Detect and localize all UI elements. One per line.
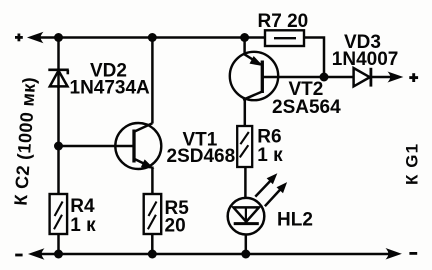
junction: bottom rail / HL2 [241,250,250,259]
wire: R4 bottom lead [57,233,60,254]
plus terminal right [409,73,418,82]
transistor VT1 (NPN 2SD468) [115,123,161,169]
HL2 emission arrow 1 [255,174,276,196]
wire: VD2 top lead [57,38,60,89]
wire: VT2 collector lead to R6 [244,99,247,127]
resistor R4 [50,194,68,234]
svg-text:R4: R4 [70,196,95,217]
wire: R5 bottom lead [151,233,154,254]
transistor VT2 (PNP 2SA564) [230,52,278,100]
HL2 emission arrow 2 [265,183,286,206]
wire: VD3 cathode wire with right arrow [371,76,392,79]
resistor R6 [237,126,252,167]
junction: top rail / VD2 [54,33,63,42]
svg-text:К G1: К G1 [403,143,422,185]
zener diode VD2 [48,70,69,87]
svg-text:1 к: 1 к [257,145,283,166]
svg-text:HL2: HL2 [277,209,313,230]
minus terminal bottom-left [15,254,22,257]
svg-text:2SA564: 2SA564 [272,97,341,118]
wire: R6 bottom lead to HL2 [244,167,247,199]
plus terminal top-left [15,34,23,42]
wire: VT1 emitter lead to R5 [151,167,154,195]
svg-text:2SD468: 2SD468 [167,146,236,167]
junction: top rail / VT1 collector [148,33,157,42]
svg-text:1N4734A: 1N4734A [70,78,151,99]
svg-text:1 к: 1 к [70,215,96,236]
wire: VT2 emitter lead [243,38,246,56]
minus terminal bottom-right [409,252,417,255]
junction: VT2 base / R7 / VD3 [320,73,329,82]
svg-text:20: 20 [165,216,186,237]
wire: R7 right lead down to VT2 base node [304,38,324,78]
wire: bottom rail with left and right arrows [40,253,390,256]
wire: VT2 base wire [262,76,324,79]
junction: bottom rail / R4 [54,250,63,259]
junction: bottom rail / R5 [148,250,157,259]
wire: VT1 base wire [59,145,134,148]
junction: top rail / VT2 emitter [240,33,249,42]
wire: VD3 anode wire [324,76,354,79]
diode VD3 [354,68,371,87]
resistor R5 [144,194,162,234]
LED HL2 [228,198,265,235]
wire: R4 top lead [57,146,60,194]
svg-text:R7 20: R7 20 [258,11,309,32]
wire: VD2 bottom lead to base node [57,85,60,146]
resistor R7 [265,30,304,46]
wire: HL2 bottom lead [245,234,248,254]
junction: node VD2/R4/VT1 base [54,142,63,151]
wire: VT1 collector lead [151,38,154,124]
wire: top rail with left arrow [39,36,265,39]
svg-text:1N4007: 1N4007 [332,49,399,70]
